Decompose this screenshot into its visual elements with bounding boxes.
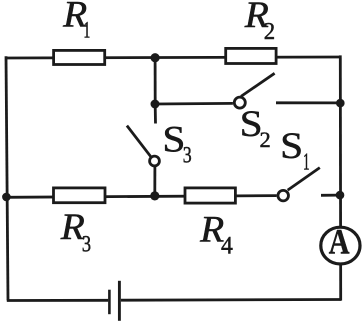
svg-text:3: 3 bbox=[82, 230, 91, 257]
label R2 bbox=[244, 0, 269, 36]
label R1 bbox=[62, 0, 87, 35]
svg-text:R: R bbox=[60, 207, 85, 247]
svg-text:4: 4 bbox=[221, 232, 233, 260]
svg-text:1: 1 bbox=[83, 18, 90, 43]
wire: S3 pivot down to middle wire bbox=[153, 167, 156, 197]
ammeter A circle bbox=[321, 227, 360, 264]
wire: S1 right stub bbox=[321, 194, 340, 197]
wire: branch from top junction down to S2 tee bbox=[154, 58, 157, 104]
svg-text:1: 1 bbox=[303, 150, 310, 176]
wire: S3 fixed contact stub bbox=[154, 106, 157, 124]
switch S3 pivot circle bbox=[150, 156, 160, 166]
svg-text:2: 2 bbox=[260, 127, 271, 152]
junction dot: S1 branch at right vertical bbox=[336, 191, 345, 200]
battery positive plate long bbox=[118, 281, 121, 321]
wire: middle horizontal through R3 R4 to S1 bbox=[6, 196, 277, 198]
junction dot: top wire branch bbox=[151, 53, 160, 62]
ammeter letter A bbox=[329, 223, 350, 263]
switch S3 lever bbox=[127, 126, 151, 158]
svg-text:2: 2 bbox=[264, 19, 275, 46]
wire: S2 branch left segment bbox=[155, 102, 233, 105]
resistor R3 bbox=[54, 188, 106, 203]
battery negative plate short bbox=[108, 290, 111, 315]
switch S2 lever bbox=[241, 73, 275, 96]
junction dot: S3 at middle wire bbox=[150, 191, 159, 200]
wire: top horizontal bbox=[6, 57, 341, 58]
switch S1 pivot circle bbox=[278, 190, 289, 201]
junction dot: S2 tee bbox=[151, 100, 160, 109]
label S2 bbox=[240, 104, 263, 145]
wire: battery to bottom right bbox=[121, 298, 341, 302]
switch S2 pivot circle bbox=[234, 97, 245, 108]
svg-text:A: A bbox=[329, 223, 350, 263]
resistor R2 bbox=[226, 48, 276, 63]
resistor R1 bbox=[54, 50, 105, 64]
switch S1 lever bbox=[288, 168, 320, 191]
junction dot: left vertical at middle wire bbox=[2, 193, 11, 202]
svg-text:S: S bbox=[280, 126, 303, 167]
wire: right vertical bbox=[339, 55, 342, 300]
svg-text:3: 3 bbox=[183, 143, 192, 168]
wire: bottom left to battery bbox=[7, 299, 108, 302]
resistor R4 bbox=[185, 188, 235, 203]
label R3 bbox=[60, 207, 85, 247]
wire: S2 branch right segment bbox=[276, 101, 340, 104]
label R4 bbox=[199, 210, 224, 250]
label S3 bbox=[162, 120, 185, 161]
label S1 bbox=[280, 126, 303, 167]
wire: left vertical bbox=[6, 56, 8, 300]
junction dot: S2 branch at right vertical bbox=[336, 99, 345, 108]
